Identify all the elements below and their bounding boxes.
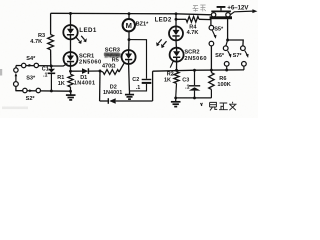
switch S6 lever [228, 51, 230, 55]
wire: SCR1 cathode down [70, 66, 72, 71]
wire: node down to SCR3 [128, 40, 130, 51]
wire: junction to SCR1 gate [51, 63, 67, 66]
node: LED2/R4 branch junction [175, 18, 178, 21]
switch S5 lever [212, 30, 215, 36]
pushbutton S1 right contact [226, 13, 230, 17]
node: D1/R5/D2-branch junction [99, 70, 102, 73]
wire: D2 rail to right corner [116, 100, 153, 102]
wire: D2 bottom rail [100, 100, 109, 102]
diode D1 [82, 68, 88, 74]
wire: rail down to LED1 [70, 14, 72, 26]
node: SCR1/R1/D1 junction [69, 70, 72, 73]
resistor R2 [176, 70, 178, 71]
ground (left, below R1) [70, 91, 72, 94]
LED LED2 [169, 26, 183, 40]
resistor R6 [210, 70, 212, 73]
node: top rail / LED2 junction [175, 12, 178, 15]
wire: right corner up to gate net [152, 71, 154, 101]
node: C3 junction [193, 69, 196, 72]
capacitor C3 [194, 70, 196, 85]
SCR SCR3 [122, 50, 136, 64]
paper noise overlay [0, 0, 258, 118]
node: R2/ground junction [174, 96, 177, 99]
node: R6/S5 junction [210, 69, 213, 72]
switch S7 lever [245, 51, 247, 55]
switch S4 lever arrow [29, 64, 33, 67]
wire: node to diode D1 [71, 70, 83, 72]
wire: C1 bottom lead to ground rail [50, 74, 52, 91]
wire: R3 bottom to S4/C1 node [50, 50, 52, 66]
switch S2 left contact [23, 88, 27, 92]
resistor R3 [48, 35, 54, 50]
node: S4/R3/C1 junction [50, 65, 53, 68]
wire: D1 to node [88, 70, 100, 72]
pushbutton S1 actuator stem and cap [220, 8, 222, 11]
SCR2 gate lead [170, 61, 173, 68]
wire: R5 to SCR3 gate [119, 63, 124, 72]
wire: branch over to S7 [228, 40, 244, 46]
switch S2 lever arrow [29, 89, 33, 92]
diode D2 [107, 98, 109, 104]
wire: top supply rail [51, 13, 212, 15]
wire: R4 to S5 top [199, 19, 211, 25]
switch S4 right contact [34, 63, 38, 67]
supply arrow head [252, 9, 257, 13]
capacitor C1 [50, 66, 52, 69]
wire: branch right to C2 [129, 40, 147, 79]
LED2 emission arrows [163, 41, 167, 45]
wire: LED2 to SCR2 [175, 40, 177, 47]
resistor R1 [70, 71, 72, 74]
wire: pushbutton to supply arrow [230, 11, 252, 15]
node: BZ1/SCR3/C2 junction [128, 38, 131, 41]
resistor R5 [100, 71, 103, 72]
wire: SCR3 cathode to ground [128, 64, 131, 91]
switch S3 bottom contact [14, 82, 19, 87]
resistor R4 [186, 16, 199, 22]
LED LED1 [63, 25, 77, 39]
node: R2 junction [175, 69, 178, 72]
wire: C2 bottom to ground stem [130, 84, 147, 91]
node: C1/ground-rail junction [50, 89, 53, 92]
wire: bottom-left ground rail [16, 90, 71, 93]
node: C3/ground-rail junction [193, 96, 196, 99]
wire: junction to S6 top [226, 40, 228, 46]
wire: gate net horizontal [153, 70, 244, 71]
node: top rail / LED1 junction [69, 12, 72, 15]
wire: S5 bottom to gate net [210, 46, 212, 70]
wire: top-left corner down to R3 [50, 13, 52, 34]
scan speck left edge [0, 69, 2, 76]
switch S4 left contact [22, 63, 26, 67]
wire: S3 bottom to ground rail corner [16, 86, 23, 90]
pushbutton switch S1 (top right): left contact [211, 13, 215, 17]
node: R1/ground junction [69, 90, 72, 93]
switch S3 top contact [14, 68, 18, 72]
switch S7 top contact [241, 46, 246, 51]
wire: S7 bottom to gate net [243, 66, 245, 70]
LED1 emission arrows [76, 37, 79, 41]
SCR SCR2 [170, 48, 184, 62]
wire: branch to R4 [176, 18, 186, 20]
capacitor C2 [142, 79, 152, 81]
node: S6 junction [225, 69, 228, 72]
pushbutton S1 heavy contact bar [210, 16, 232, 19]
pushbutton S1 bridge bar [211, 11, 231, 13]
wire: rail down to BZ1 [128, 14, 130, 20]
wire: SCR2 cathode to gate net [176, 62, 178, 70]
buzzer BZ1 [123, 19, 135, 31]
scan smudge bottom-left [2, 107, 28, 110]
switch S7 bottom contact [242, 61, 247, 66]
switch S3 lever arrow [15, 75, 17, 82]
SCR SCR1 [64, 52, 78, 66]
wire: S6 bottom to gate net [226, 66, 228, 70]
wire: middle ground rail [176, 97, 212, 99]
ground (below SCR3) [129, 91, 131, 94]
wire: node down to D2 rail [99, 71, 101, 101]
note: *see-text (Chinese) bottom right [200, 102, 236, 111]
wire: supply branch down to S6/S7 [227, 18, 229, 40]
node: S6/S7 branch junction [226, 39, 229, 42]
wire: corner from S4 row down to S3 top contact [15, 66, 17, 69]
node: top rail / BZ1 junction [128, 12, 131, 15]
wire: S4 row horizontal [16, 65, 51, 67]
switch S5 bottom contact [209, 41, 214, 46]
wire: LED1 to SCR1 [70, 39, 72, 52]
switch S6 bottom contact [224, 61, 229, 66]
label (Chinese, see-text note) above pushbutton [193, 5, 206, 12]
switch S5 top contact [209, 25, 214, 30]
ground (middle, below R2) [175, 98, 177, 101]
wire: BZ1 to SCR3 anode node [128, 31, 130, 39]
wire: rail down to LED2 [175, 14, 177, 27]
switch S6 top contact [223, 46, 228, 51]
switch S2 right contact [36, 88, 40, 92]
